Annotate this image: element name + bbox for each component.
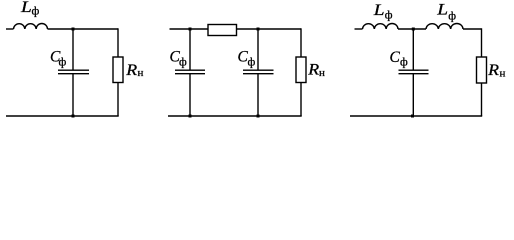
junction: circuit 1 top node	[72, 28, 75, 31]
svg-text:ф: ф	[32, 4, 40, 18]
capacitor C1 (Cф) plates	[58, 70, 89, 74]
junction: circuit 2 top node A	[189, 28, 192, 31]
wire: circuit 2 resistor top lead	[300, 28, 302, 57]
wire: circuit 3 top wire to load	[463, 28, 482, 30]
wire: circuit 1 bottom wire	[6, 115, 119, 117]
svg-text:н: н	[138, 67, 144, 79]
junction: circuit 1 bottom node	[72, 115, 75, 118]
capacitor C3 (Cф) top lead	[257, 29, 259, 70]
junction: circuit 2 top node B	[257, 28, 260, 31]
wire: circuit 2 resistor bottom lead	[300, 83, 302, 117]
capacitor C4 (Cф) bottom lead	[412, 74, 414, 116]
inductor L2 (Lф)	[363, 24, 398, 29]
svg-text:ф: ф	[385, 8, 393, 22]
wire: circuit 1 resistor top lead	[117, 28, 119, 57]
svg-text:н: н	[319, 67, 325, 79]
svg-text:L: L	[436, 0, 448, 18]
resistor R2 (Rн) body	[296, 57, 306, 83]
wire: circuit 1 top input lead	[6, 28, 14, 30]
junction: circuit 3 top node	[412, 28, 415, 31]
svg-text:L: L	[373, 1, 385, 19]
svg-text:R: R	[125, 61, 137, 79]
series element box (circuit 2)	[208, 25, 237, 36]
wire: circuit 2 top wire	[170, 28, 302, 30]
svg-text:ф: ф	[248, 55, 256, 69]
svg-text:C: C	[390, 49, 401, 66]
svg-text:ф: ф	[179, 55, 187, 69]
capacitor C3 (Cф) bottom lead	[257, 74, 259, 116]
inductor L1 (Lф)	[14, 24, 48, 29]
capacitor C2 (Cф) top lead	[189, 29, 191, 70]
svg-text:ф: ф	[59, 55, 67, 69]
wire: circuit 1 resistor bottom lead	[117, 83, 119, 117]
junction: circuit 2 bottom node A	[189, 115, 192, 118]
svg-text:R: R	[307, 61, 319, 79]
svg-text:R: R	[487, 61, 499, 79]
capacitor C3 (Cф) plates	[243, 70, 274, 74]
svg-text:L: L	[20, 0, 32, 16]
capacitor C2 (Cф) plates	[175, 70, 205, 74]
svg-text:ф: ф	[448, 8, 456, 22]
svg-text:ф: ф	[400, 55, 408, 69]
junction: circuit 3 bottom node	[411, 115, 414, 118]
capacitor C1 (Cф) top lead	[72, 29, 74, 70]
wire: circuit 2 bottom wire	[168, 115, 302, 117]
resistor R3 (Rн) body	[477, 57, 487, 83]
wire: circuit 3 resistor bottom lead	[481, 83, 483, 116]
capacitor C1 (Cф) bottom lead	[72, 74, 74, 116]
svg-text:н: н	[500, 67, 506, 79]
wire: circuit 3 resistor top lead	[481, 28, 483, 57]
wire: circuit 1 top wire to load	[48, 28, 119, 30]
capacitor C4 (Cф) plates	[399, 70, 429, 74]
junction: circuit 2 bottom node B	[257, 115, 260, 118]
wire: circuit 3 top middle wire	[398, 28, 426, 30]
wire: circuit 3 bottom wire	[350, 115, 482, 117]
wire: circuit 3 top input lead	[355, 28, 363, 30]
resistor R1 (Rн) body	[113, 57, 123, 83]
capacitor C4 (Cф) top lead	[412, 29, 414, 70]
capacitor C2 (Cф) bottom lead	[189, 74, 191, 116]
inductor L3 (Lф)	[426, 24, 463, 29]
